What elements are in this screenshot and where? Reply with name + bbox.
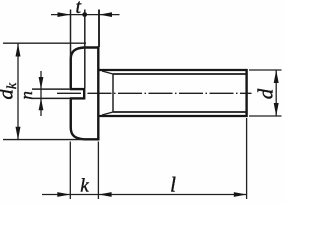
dimension dk bottom arrow <box>16 127 21 140</box>
dimension k right / l left arrow <box>99 192 112 197</box>
slot bottom face <box>83 88 85 100</box>
dimension d extension line bottom <box>249 115 282 117</box>
dimension dk extension line top <box>3 42 86 44</box>
centerline <box>57 92 252 94</box>
screw end face <box>245 69 247 117</box>
thread runout top diagonal <box>102 71 113 74</box>
thread root bottom line <box>113 111 246 113</box>
dimension d line <box>275 70 277 116</box>
dimension k and l shared line <box>42 194 247 196</box>
dimension t right arrow <box>99 12 112 17</box>
dimension l right arrow <box>234 192 247 197</box>
shank top outer line <box>98 69 246 71</box>
dimension d top arrow <box>274 70 279 83</box>
dimension n extension line upper <box>32 88 70 90</box>
thread runout bottom diagonal <box>102 112 113 115</box>
svg-text:n: n <box>17 91 36 100</box>
thread runout boundary <box>112 74 114 112</box>
dimension n upper arrow <box>39 77 44 89</box>
dimension t line <box>51 14 120 16</box>
head outline upper <box>71 48 99 89</box>
dimension d extension line top <box>249 69 282 71</box>
dimension d bottom arrow <box>274 103 279 116</box>
dimension t extension line (head face) <box>70 10 72 59</box>
dimension t left arrow <box>58 12 71 17</box>
svg-text:d: d <box>254 88 278 99</box>
svg-text:l: l <box>170 173 176 197</box>
dimension k extension line left <box>69 142 71 200</box>
dimension dk extension line bottom <box>3 139 85 141</box>
dimension n lower arrow <box>39 98 44 110</box>
dimension n line <box>40 71 42 116</box>
shank bottom outer line <box>98 115 246 117</box>
extension line head back face (top) <box>98 10 100 48</box>
dimension k left arrow <box>57 192 70 197</box>
dimension t extension line (slot bottom, crossing head) <box>84 10 86 89</box>
dimension dk line <box>17 44 19 140</box>
thread root top line <box>113 73 246 75</box>
slot lower line <box>70 97 84 99</box>
dimension dk top arrow <box>16 44 21 57</box>
head back face <box>97 46 99 140</box>
svg-text:k: k <box>80 176 89 197</box>
head outline lower <box>71 99 99 139</box>
dimension n extension line lower <box>32 97 70 99</box>
dimension t boundary dot <box>82 12 87 17</box>
dimension k extension line right <box>97 142 99 200</box>
slot upper line <box>70 88 84 90</box>
dimension l extension line (screw end) <box>246 118 248 199</box>
svg-text:t: t <box>76 0 82 18</box>
